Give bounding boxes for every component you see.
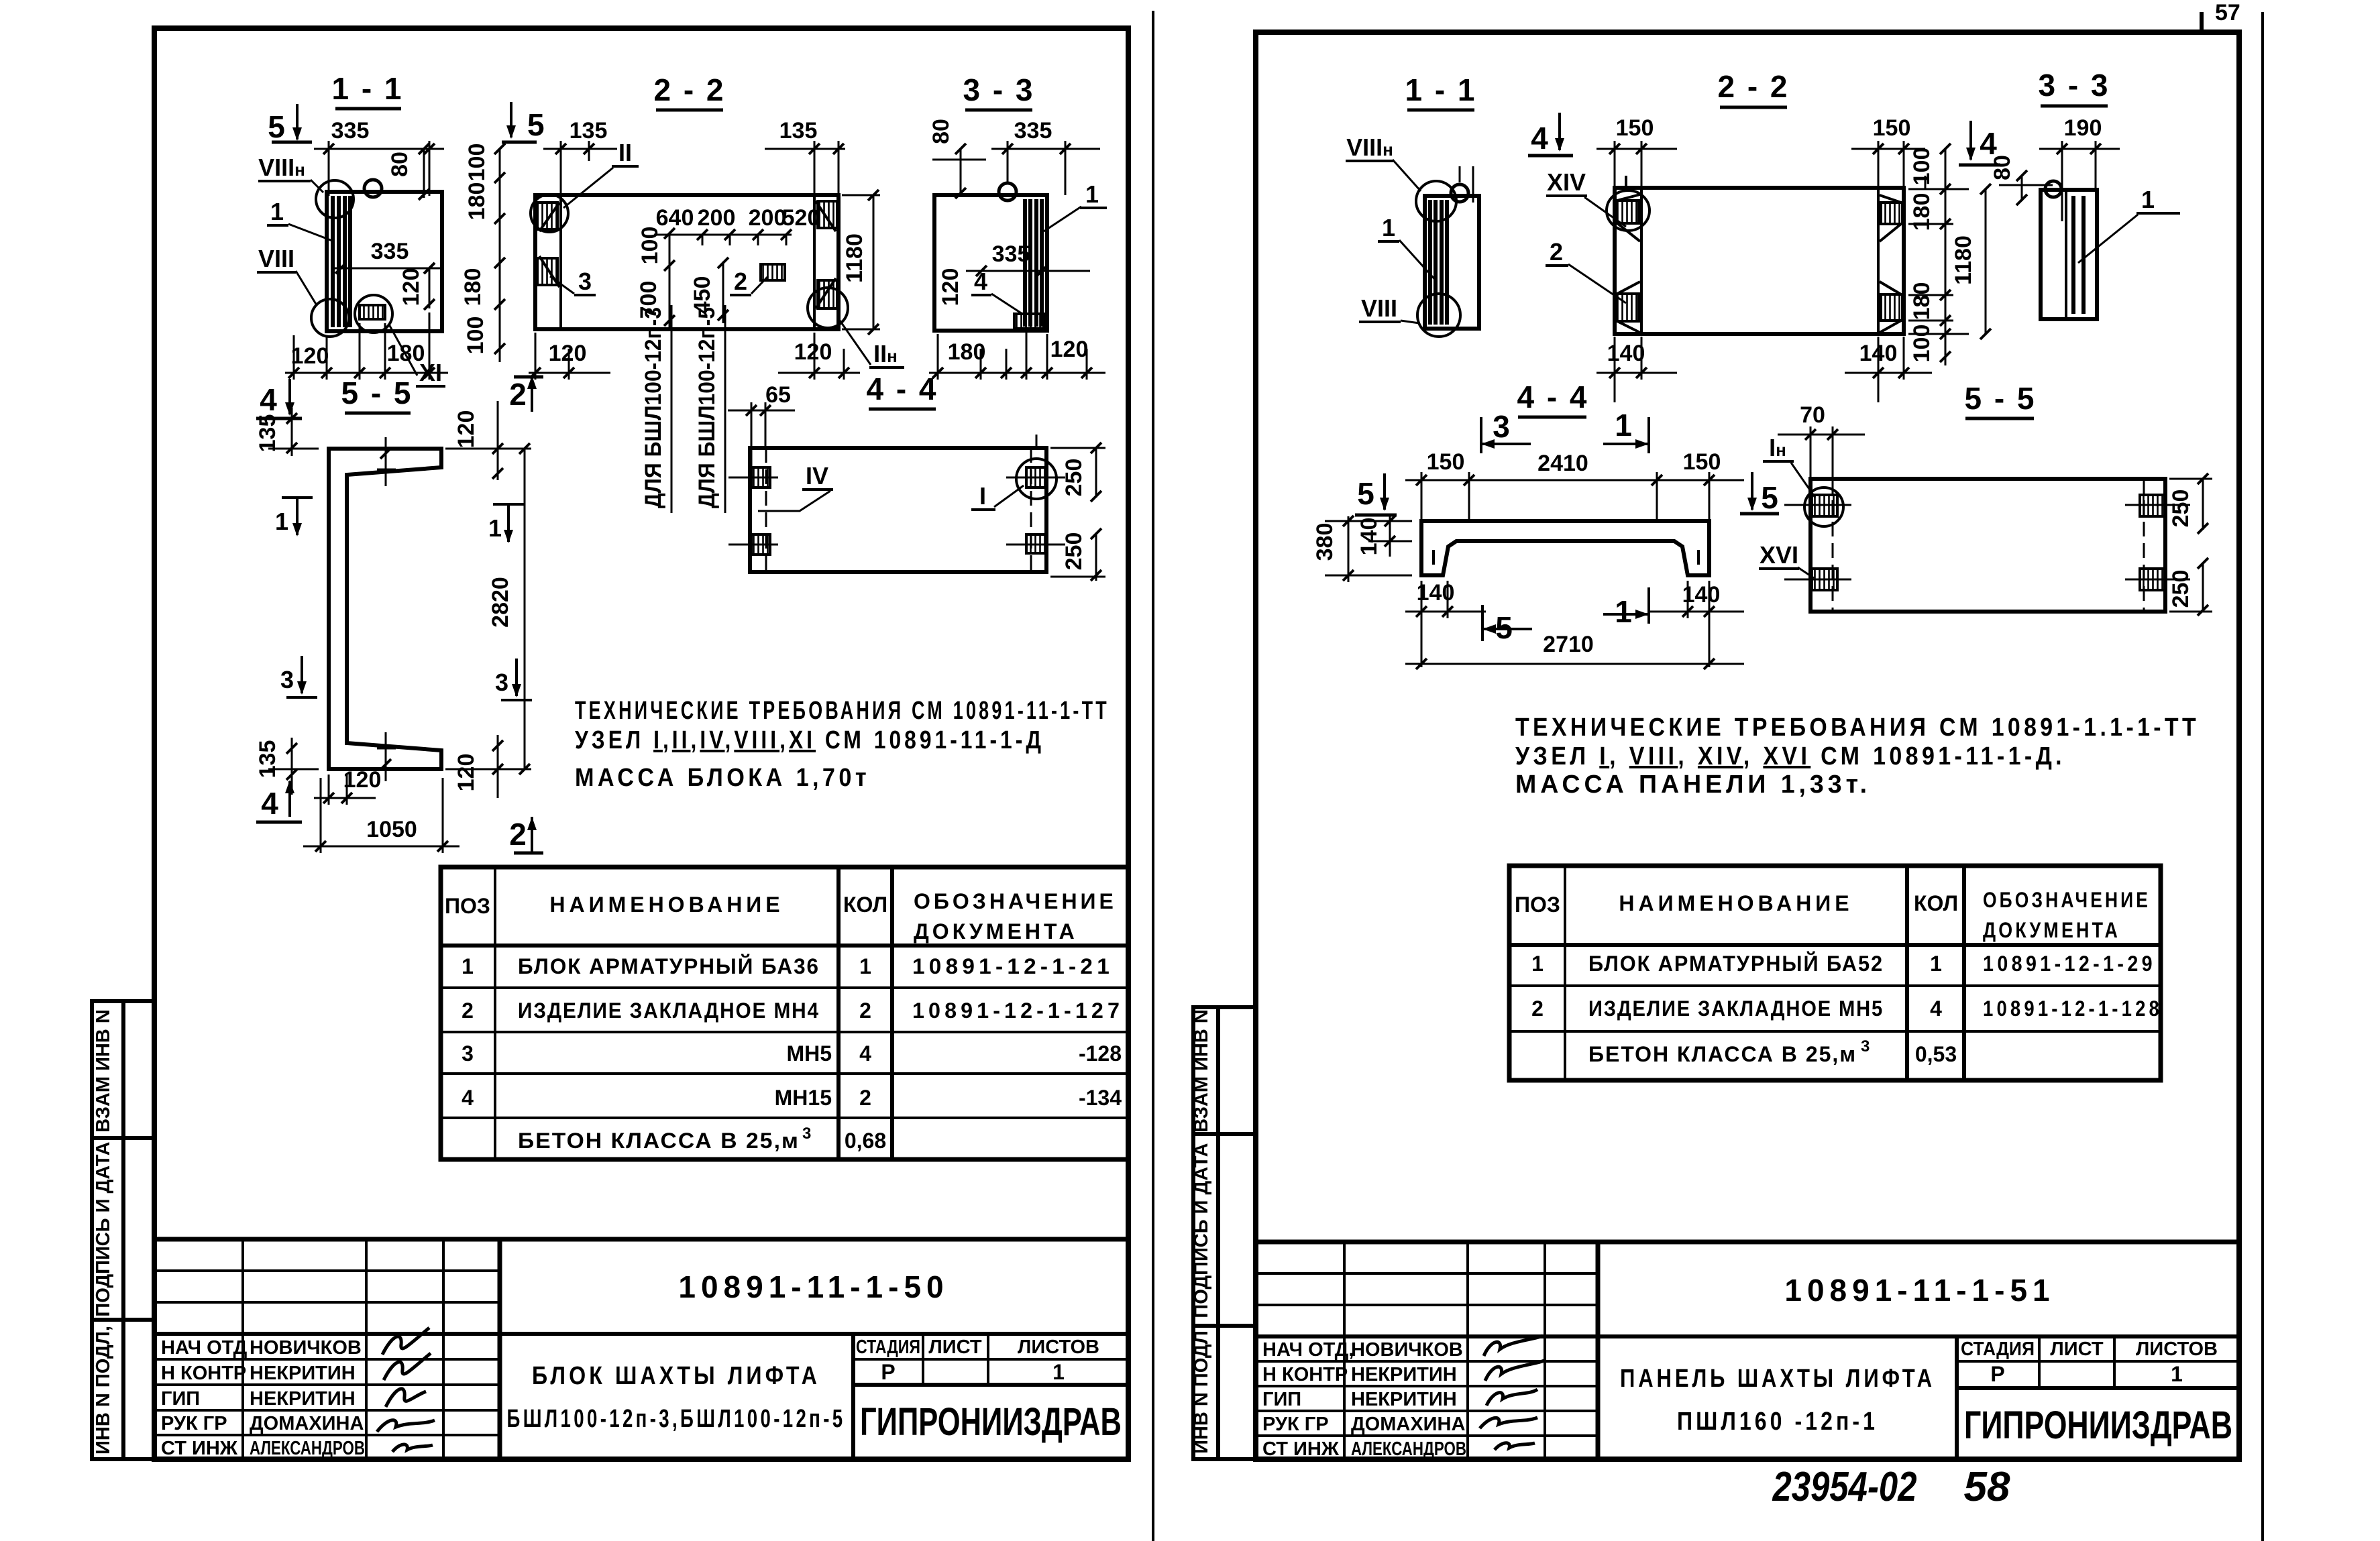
right sidebar box [1193, 1007, 1256, 1459]
bottom dim 120 left 2-2 [529, 333, 610, 380]
end marks 4-4 right [1434, 550, 1698, 565]
svg-text:ДОКУМЕНТА: ДОКУМЕНТА [1983, 918, 2120, 942]
view title 2-2 right [1717, 69, 1789, 107]
svg-text:ДЛЯ БШЛ100-12п-3: ДЛЯ БШЛ100-12п-3 [641, 307, 666, 508]
svg-text:Р: Р [881, 1360, 895, 1384]
svg-text:200: 200 [749, 205, 787, 231]
svg-text:2: 2 [734, 268, 747, 295]
svg-text:ГИПРОНИИЗДРАВ: ГИПРОНИИЗДРАВ [1964, 1404, 2232, 1447]
svg-text:МАССА ПАНЕЛИ 1,33т.: МАССА ПАНЕЛИ 1,33т. [1515, 770, 1871, 799]
node circle top 1-1 right [1416, 181, 1456, 221]
dim 335 mid 3-3 [966, 241, 1090, 276]
svg-text:XVI: XVI [1760, 541, 1798, 569]
svg-text:3: 3 [462, 1041, 474, 1066]
node circle 5-5 right [1804, 488, 1843, 526]
svg-text:2820: 2820 [488, 577, 513, 628]
dim 120 mid 1-1 [398, 263, 435, 310]
svg-text:2: 2 [859, 998, 871, 1023]
svg-text:НАИМЕНОВАНИЕ: НАИМЕНОВАНИЕ [1619, 891, 1853, 915]
ext lines top 1-1 right [1460, 166, 1473, 203]
svg-text:10891-11-1-50: 10891-11-1-50 [678, 1269, 949, 1304]
page divider line [1152, 11, 1154, 1541]
svg-text:80: 80 [928, 119, 954, 144]
label I 4-4 [971, 482, 1024, 510]
label XIV [1546, 168, 1626, 227]
label IV [758, 462, 833, 511]
marker 1 right 5-5 [488, 504, 524, 543]
dim 200 520 right 2-2 [743, 205, 820, 245]
svg-text:2410: 2410 [1537, 451, 1588, 476]
svg-text:ЛИСТОВ: ЛИСТОВ [2136, 1338, 2218, 1360]
dim 80 rot 3-3 right [1990, 155, 2053, 205]
svg-text:АЛЕКСАНДРОВ: АЛЕКСАНДРОВ [1351, 1438, 1466, 1460]
svg-text:1: 1 [462, 954, 474, 978]
node circle VIII bottom [311, 299, 349, 337]
svg-text:ТЕХНИЧЕСКИЕ ТРЕБОВАНИЯ СМ 108: ТЕХНИЧЕСКИЕ ТРЕБОВАНИЯ СМ 10891-11-1-ТТ [575, 697, 1110, 725]
svg-text:ДОМАХИНА: ДОМАХИНА [250, 1413, 364, 1434]
svg-text:58: 58 [1964, 1464, 2010, 1510]
bottom dims 3-3 [929, 332, 1105, 380]
svg-text:КОЛ: КОЛ [843, 893, 887, 917]
svg-text:120: 120 [794, 339, 832, 365]
section marker 5 for 2-2 [502, 102, 545, 142]
svg-text:1: 1 [1085, 180, 1099, 208]
svg-text:ЛИСТ: ЛИСТ [2050, 1338, 2103, 1360]
svg-text:2: 2 [462, 998, 474, 1023]
svg-text:НЕКРИТИН: НЕКРИТИН [250, 1363, 356, 1384]
svg-text:ОБОЗНАЧЕНИЕ: ОБОЗНАЧЕНИЕ [914, 889, 1117, 913]
svg-text:2 - 2: 2 - 2 [1717, 69, 1789, 104]
svg-text:ГИП: ГИП [161, 1388, 200, 1410]
marker 5 down left 4-4 right [1355, 473, 1397, 515]
svg-text:УЗЕЛ I,II,IV,VIII,XI СМ 10891: УЗЕЛ I,II,IV,VIII,XI СМ 10891-11-1-Д [575, 726, 1044, 754]
svg-text:-128: -128 [1079, 1041, 1122, 1066]
svg-text:120: 120 [453, 754, 479, 792]
svg-text:ИЗДЕЛИЕ ЗАКЛАДНОЕ МН5: ИЗДЕЛИЕ ЗАКЛАДНОЕ МН5 [1588, 996, 1884, 1021]
dim 335 top 3-3 [991, 118, 1100, 195]
body section 3-3 [934, 195, 1047, 331]
svg-text:4: 4 [974, 268, 987, 295]
label 2 leader right 2-2 [1546, 238, 1626, 303]
svg-text:1: 1 [1382, 214, 1395, 241]
svg-text:Н КОНТР: Н КОНТР [1262, 1364, 1348, 1385]
svg-text:100: 100 [463, 317, 488, 355]
svg-text:0,68: 0,68 [845, 1129, 886, 1153]
svg-text:135: 135 [570, 118, 608, 144]
stub top left 2-2 right [1625, 176, 1627, 189]
svg-text:ГИП: ГИП [1262, 1389, 1301, 1410]
lifting loop 3-3 right [2045, 181, 2061, 197]
label 2 leader 2-2 [730, 268, 768, 295]
label VIII [257, 245, 317, 305]
svg-text:1: 1 [1615, 408, 1632, 443]
svg-text:РУК ГР: РУК ГР [161, 1413, 227, 1434]
label Iн right 5-5 [1763, 434, 1815, 498]
bottom dim 140 right 4-4 right [1650, 581, 1744, 667]
svg-text:ДОКУМЕНТА: ДОКУМЕНТА [914, 919, 1078, 944]
svg-text:МАССА БЛОКА 1,70т: МАССА БЛОКА 1,70т [575, 764, 870, 792]
svg-text:4: 4 [859, 1041, 871, 1066]
rotated note ДЛЯ БШЛ100-12п-5 [694, 305, 725, 513]
lifting loop 1-1 [364, 180, 382, 197]
dim 135 rot top left 5-5 [255, 408, 319, 456]
marker 4 down 3-3 right [1959, 121, 2000, 165]
view title 4-4 right [1517, 380, 1588, 417]
svg-text:2: 2 [1550, 238, 1563, 266]
svg-text:3: 3 [1493, 409, 1510, 444]
svg-text:МН15: МН15 [775, 1086, 832, 1110]
svg-text:5 - 5: 5 - 5 [1964, 381, 2036, 416]
label 1 leader [267, 198, 334, 241]
svg-text:1: 1 [859, 954, 871, 978]
svg-text:XI: XI [419, 359, 442, 386]
svg-text:XIV: XIV [1547, 168, 1586, 196]
svg-text:335: 335 [1014, 118, 1052, 144]
bottom dim 140 right 2-2 right [1845, 337, 1932, 402]
node circle bottom 1-1 right [1417, 294, 1460, 337]
svg-text:180: 180 [464, 182, 490, 221]
svg-text:1: 1 [270, 198, 284, 225]
svg-text:150: 150 [1427, 449, 1465, 475]
marker 2 bottom [509, 817, 543, 853]
svg-text:2: 2 [859, 1086, 871, 1110]
sheet frame right [1256, 32, 2239, 1459]
node circle I 4-4 [1016, 459, 1057, 499]
label 3 leader 2-2 [550, 268, 596, 295]
view title 5-5 right [1964, 381, 2036, 418]
svg-text:-134: -134 [1079, 1086, 1122, 1110]
view title 3-3 right [2038, 68, 2110, 106]
dim 450 rot 2-2 [690, 258, 728, 323]
body plan 4-4 [750, 448, 1046, 572]
svg-text:НОВИЧКОВ: НОВИЧКОВ [1351, 1339, 1463, 1361]
svg-text:1: 1 [488, 514, 502, 542]
svg-text:250: 250 [2168, 570, 2194, 608]
svg-text:250: 250 [1061, 532, 1087, 571]
title block left: grid [154, 1239, 1128, 1459]
rails 3-3 right [2073, 196, 2084, 314]
dim 135 top right 2-2 [765, 118, 845, 194]
svg-text:4 - 4: 4 - 4 [866, 372, 938, 406]
lifting loop 3-3 [999, 183, 1016, 201]
svg-text:1: 1 [1531, 952, 1544, 976]
node circle IIн bottom right 2-2 [808, 288, 848, 328]
svg-text:120: 120 [453, 410, 479, 449]
svg-text:ПОДПИСЬ И ДАТА: ПОДПИСЬ И ДАТА [93, 1141, 114, 1316]
svg-text:3: 3 [578, 268, 592, 295]
body section 2-2 right [1615, 188, 1904, 334]
right plates 5-5 right [2125, 495, 2190, 590]
body section 1-1 [327, 192, 442, 331]
signatures squiggles left [377, 1328, 435, 1452]
svg-text:II: II [618, 139, 632, 166]
svg-text:ПОДПИСЬ И ДАТА: ПОДПИСЬ И ДАТА [1191, 1143, 1212, 1318]
right wall 2-2 [814, 195, 837, 329]
inner line 3-3 right [2065, 190, 2067, 319]
svg-text:5: 5 [527, 107, 545, 142]
bottom dim 140 left 4-4 right [1405, 580, 1486, 667]
dim 70 right 5-5 [1778, 402, 1865, 477]
bottom dim 140 left 2-2 right [1597, 337, 1677, 402]
dim 100 rot 2-2 [637, 227, 675, 271]
svg-text:80: 80 [387, 152, 413, 177]
dim 120 rot top right 5-5 [453, 401, 503, 480]
svg-text:ПШЛ160 -12п-1: ПШЛ160 -12п-1 [1677, 1408, 1878, 1436]
svg-text:I: I [979, 482, 986, 510]
dim 1180 right sheet [1951, 184, 1991, 339]
svg-text:180: 180 [460, 268, 486, 306]
dim 250 bottom right 5-5 [2168, 558, 2212, 616]
rotated note ДЛЯ БШЛ100-12п-3 [641, 305, 671, 513]
svg-text:3: 3 [802, 1125, 811, 1143]
svg-text:1: 1 [2171, 1362, 2183, 1386]
svg-text:ИНВ N ПОДЛ: ИНВ N ПОДЛ [1191, 1330, 1212, 1454]
svg-text:ПОЗ: ПОЗ [445, 894, 490, 918]
label VIIIн [258, 154, 323, 192]
svg-text:10891-12-1-21: 10891-12-1-21 [912, 954, 1114, 978]
svg-text:2: 2 [509, 817, 527, 852]
svg-text:БЛОК АРМАТУРНЫЙ БА36: БЛОК АРМАТУРНЫЙ БА36 [518, 954, 820, 978]
signatures squiggles right [1480, 1336, 1544, 1450]
view title 5-5 [341, 376, 413, 413]
svg-text:1: 1 [1930, 952, 1942, 976]
svg-text:Р: Р [1990, 1362, 2004, 1386]
svg-text:10891-12-1-128: 10891-12-1-128 [1983, 996, 2163, 1021]
svg-text:100: 100 [1909, 325, 1935, 363]
dim 700 rot 2-2 [636, 267, 675, 329]
svg-text:СТ ИНЖ: СТ ИНЖ [161, 1438, 238, 1459]
rebar rails 1-1 [333, 196, 350, 327]
svg-text:1: 1 [2141, 186, 2155, 213]
marker 1 left 5-5 [275, 498, 313, 536]
svg-text:335: 335 [992, 241, 1030, 267]
svg-text:70: 70 [1800, 402, 1825, 428]
svg-text:КОЛ: КОЛ [1914, 891, 1958, 915]
marker 3 right 5-5 [495, 659, 532, 700]
svg-text:4 - 4: 4 - 4 [1517, 380, 1588, 414]
svg-text:1 - 1: 1 - 1 [331, 71, 403, 106]
dashed line left 4-4 [765, 448, 767, 572]
embed plate МН15 1-1 [360, 305, 385, 319]
left wall 2-2 [537, 195, 561, 329]
svg-text:НОВИЧКОВ: НОВИЧКОВ [250, 1337, 362, 1359]
dim 65 4-4 [728, 382, 795, 469]
svg-text:МН5: МН5 [786, 1041, 832, 1066]
svg-text:3 - 3: 3 - 3 [2038, 68, 2110, 103]
marker 5 bottom 4-4 right [1482, 605, 1532, 645]
svg-text:VIII: VIII [1361, 294, 1397, 322]
view title 1-1 right [1405, 72, 1476, 110]
marker 4 down right 2-2 [1528, 113, 1573, 156]
svg-text:5 - 5: 5 - 5 [341, 376, 413, 410]
dim 2820 rot 5-5 [445, 443, 531, 775]
svg-text:3: 3 [1861, 1037, 1870, 1055]
label 1 3-3 right [2078, 186, 2180, 263]
label XI [389, 325, 445, 386]
svg-text:150: 150 [1616, 115, 1654, 141]
svg-text:5: 5 [1357, 476, 1374, 511]
svg-text:100: 100 [1909, 148, 1935, 186]
view title 4-4 [866, 372, 938, 409]
hat profile 4-4 right [1421, 521, 1709, 575]
svg-text:ИНВ N ПОДЛ,: ИНВ N ПОДЛ, [93, 1326, 114, 1454]
bottom dim 120 right 2-2 [778, 333, 860, 380]
dim 380 rot 4-4 right [1312, 516, 1412, 582]
svg-text:380: 380 [1312, 523, 1338, 561]
view title 1-1 [331, 71, 403, 109]
svg-text:135: 135 [255, 740, 280, 779]
left plates 5-5 right [1784, 495, 1851, 590]
dim 250 top right 5-5 [2168, 473, 2212, 534]
svg-text:4: 4 [260, 382, 277, 417]
svg-text:ПАНЕЛЬ ШАХТЫ ЛИФТА: ПАНЕЛЬ ШАХТЫ ЛИФТА [1620, 1365, 1935, 1393]
dim 120 rot bottom right 5-5 [453, 735, 503, 798]
svg-text:БЕТОН КЛАССА В 25,м: БЕТОН КЛАССА В 25,м [1588, 1042, 1857, 1066]
rails 3-3 [1025, 199, 1042, 327]
svg-text:520: 520 [782, 205, 820, 231]
marker 5 down 5-5 right [1740, 472, 1779, 515]
right plates 4-4 [1006, 435, 1065, 553]
svg-text:ТЕХНИЧЕСКИЕ ТРЕБОВАНИЯ СМ 10: ТЕХНИЧЕСКИЕ ТРЕБОВАНИЯ СМ 10891-1.1-1-ТТ [1515, 714, 2200, 742]
dim 335 mid 1-1 [332, 239, 444, 274]
svg-text:10891-11-1-51: 10891-11-1-51 [1784, 1273, 2055, 1308]
svg-text:1050: 1050 [366, 817, 417, 842]
svg-text:1 - 1: 1 - 1 [1405, 72, 1476, 107]
section marker 5 down [268, 104, 312, 144]
svg-text:10891-12-1-127: 10891-12-1-127 [912, 998, 1124, 1023]
svg-text:БЛОК ШАХТЫ ЛИФТА: БЛОК ШАХТЫ ЛИФТА [532, 1362, 820, 1390]
left plates 4-4 [728, 467, 778, 555]
svg-text:1: 1 [1052, 1360, 1065, 1384]
node circle II top left 2-2 [531, 194, 568, 232]
dim 140 rot 4-4 right [1356, 516, 1412, 557]
svg-text:4: 4 [1930, 996, 1942, 1021]
label 1 right 1-1 [1378, 214, 1437, 282]
svg-text:ДОМАХИНА: ДОМАХИНА [1351, 1414, 1465, 1435]
left sidebar box [92, 1001, 154, 1459]
svg-text:НЕКРИТИН: НЕКРИТИН [250, 1388, 356, 1410]
svg-text:НАИМЕНОВАНИЕ: НАИМЕНОВАНИЕ [549, 893, 783, 917]
marker 1 top 4-4 right [1603, 408, 1649, 453]
dim 190 3-3 right [2039, 115, 2120, 221]
dim 1050 5-5 [303, 778, 459, 853]
marker 2 top [509, 376, 543, 412]
label VIIIн right [1346, 133, 1421, 191]
svg-text:140: 140 [1356, 518, 1382, 556]
svg-text:VIII: VIII [258, 245, 294, 272]
svg-text:135: 135 [779, 118, 818, 144]
dim row 150 2410 150 right 4-4 [1405, 449, 1744, 523]
dim 640 200 2-2 [654, 205, 755, 245]
svg-text:5: 5 [268, 109, 285, 144]
svg-text:РУК ГР: РУК ГР [1262, 1414, 1329, 1435]
svg-text:180: 180 [1909, 193, 1935, 231]
label XVI right 5-5 [1759, 541, 1814, 578]
svg-text:120: 120 [1050, 337, 1089, 362]
svg-text:250: 250 [2168, 490, 2194, 528]
label IIн [840, 321, 904, 367]
label VIII right [1359, 294, 1419, 323]
svg-text:2: 2 [509, 377, 527, 412]
lifting loop 1-1 right [1451, 184, 1468, 202]
dim 80 top 1-1 [387, 144, 429, 200]
right title block grid [1256, 1242, 2239, 1459]
svg-text:120: 120 [343, 767, 382, 793]
bottom dims 1-1 [285, 312, 448, 380]
svg-text:СТАДИЯ: СТАДИЯ [1961, 1338, 2035, 1360]
right parts table grid [1509, 866, 2161, 1080]
svg-text:ЛИСТОВ: ЛИСТОВ [1018, 1336, 1099, 1358]
marker 4 bottom [256, 780, 302, 822]
svg-text:335: 335 [371, 239, 409, 264]
svg-text:100: 100 [637, 227, 663, 265]
node ellipse top left 2-2 right [1607, 190, 1649, 231]
node circle XI [355, 295, 392, 333]
dims column 100 180 180 100 right [1908, 144, 1969, 365]
svg-text:АЛЕКСАНДРОВ: АЛЕКСАНДРОВ [250, 1438, 365, 1459]
dim 250 bottom right 4-4 [1050, 528, 1105, 581]
embed МН4 plate mid 2-2 [761, 264, 785, 280]
dim 2710 right 4-4 [1405, 632, 1744, 669]
rails 1-1 right [1430, 200, 1447, 325]
svg-text:НЕКРИТИН: НЕКРИТИН [1351, 1364, 1457, 1385]
svg-text:3: 3 [495, 669, 508, 696]
svg-text:4: 4 [261, 786, 278, 821]
dim 120 bottom 5-5 [314, 767, 381, 805]
marker 3 top 4-4 right [1481, 409, 1531, 453]
label II [563, 139, 639, 208]
svg-text:5: 5 [1761, 480, 1778, 515]
sheet frame left [154, 28, 1128, 1459]
label 1 3-3 [1044, 180, 1107, 231]
svg-text:IV: IV [806, 462, 828, 490]
svg-text:БЛОК АРМАТУРНЫЙ БА52: БЛОК АРМАТУРНЫЙ БА52 [1588, 952, 1884, 976]
svg-text:ГИПРОНИИЗДРАВ: ГИПРОНИИЗДРАВ [860, 1400, 1122, 1444]
view title 2-2 [653, 72, 725, 110]
dim 250 top right 4-4 [1050, 443, 1105, 502]
svg-text:250: 250 [1061, 459, 1087, 497]
view title 3-3 [963, 72, 1034, 110]
svg-text:3 - 3: 3 - 3 [963, 72, 1034, 107]
svg-text:1180: 1180 [842, 233, 867, 283]
svg-text:1: 1 [275, 508, 288, 535]
dim 80 rot 3-3 [928, 119, 986, 198]
dim 1180 rot 2-2 [842, 190, 880, 335]
svg-text:150: 150 [1683, 449, 1721, 475]
body plan 5-5 right [1810, 479, 2165, 612]
svg-text:23954-02: 23954-02 [1772, 1464, 1917, 1510]
svg-text:НАЧ ОТД: НАЧ ОТД [161, 1337, 248, 1359]
label 4 and dim 120 3-3 [938, 268, 1022, 314]
svg-text:НЕКРИТИН: НЕКРИТИН [1351, 1389, 1457, 1410]
dashed line right 5-5 right [2143, 479, 2145, 612]
svg-text:СТ ИНЖ: СТ ИНЖ [1262, 1438, 1340, 1460]
dashed line left 5-5 right [1832, 479, 1834, 612]
page edge line right [2261, 12, 2264, 1541]
svg-text:120: 120 [549, 341, 587, 366]
svg-text:4: 4 [1531, 121, 1548, 156]
svg-text:ВЗАМ ИНВ N: ВЗАМ ИНВ N [93, 1009, 114, 1133]
marker 1 bottom 4-4 right [1603, 587, 1649, 629]
left wall 2-2 right [1616, 188, 1641, 334]
page number 57 [2202, 0, 2240, 34]
svg-text:БЕТОН КЛАССА В 25,м: БЕТОН КЛАССА В 25,м [518, 1129, 800, 1153]
body section 1-1 right [1425, 196, 1479, 329]
svg-text:150: 150 [1873, 115, 1911, 141]
right wall 2-2 right [1878, 176, 1925, 334]
dashed line right 4-4 [1030, 448, 1032, 572]
dim 150 right 2-2 right [1851, 115, 1925, 186]
